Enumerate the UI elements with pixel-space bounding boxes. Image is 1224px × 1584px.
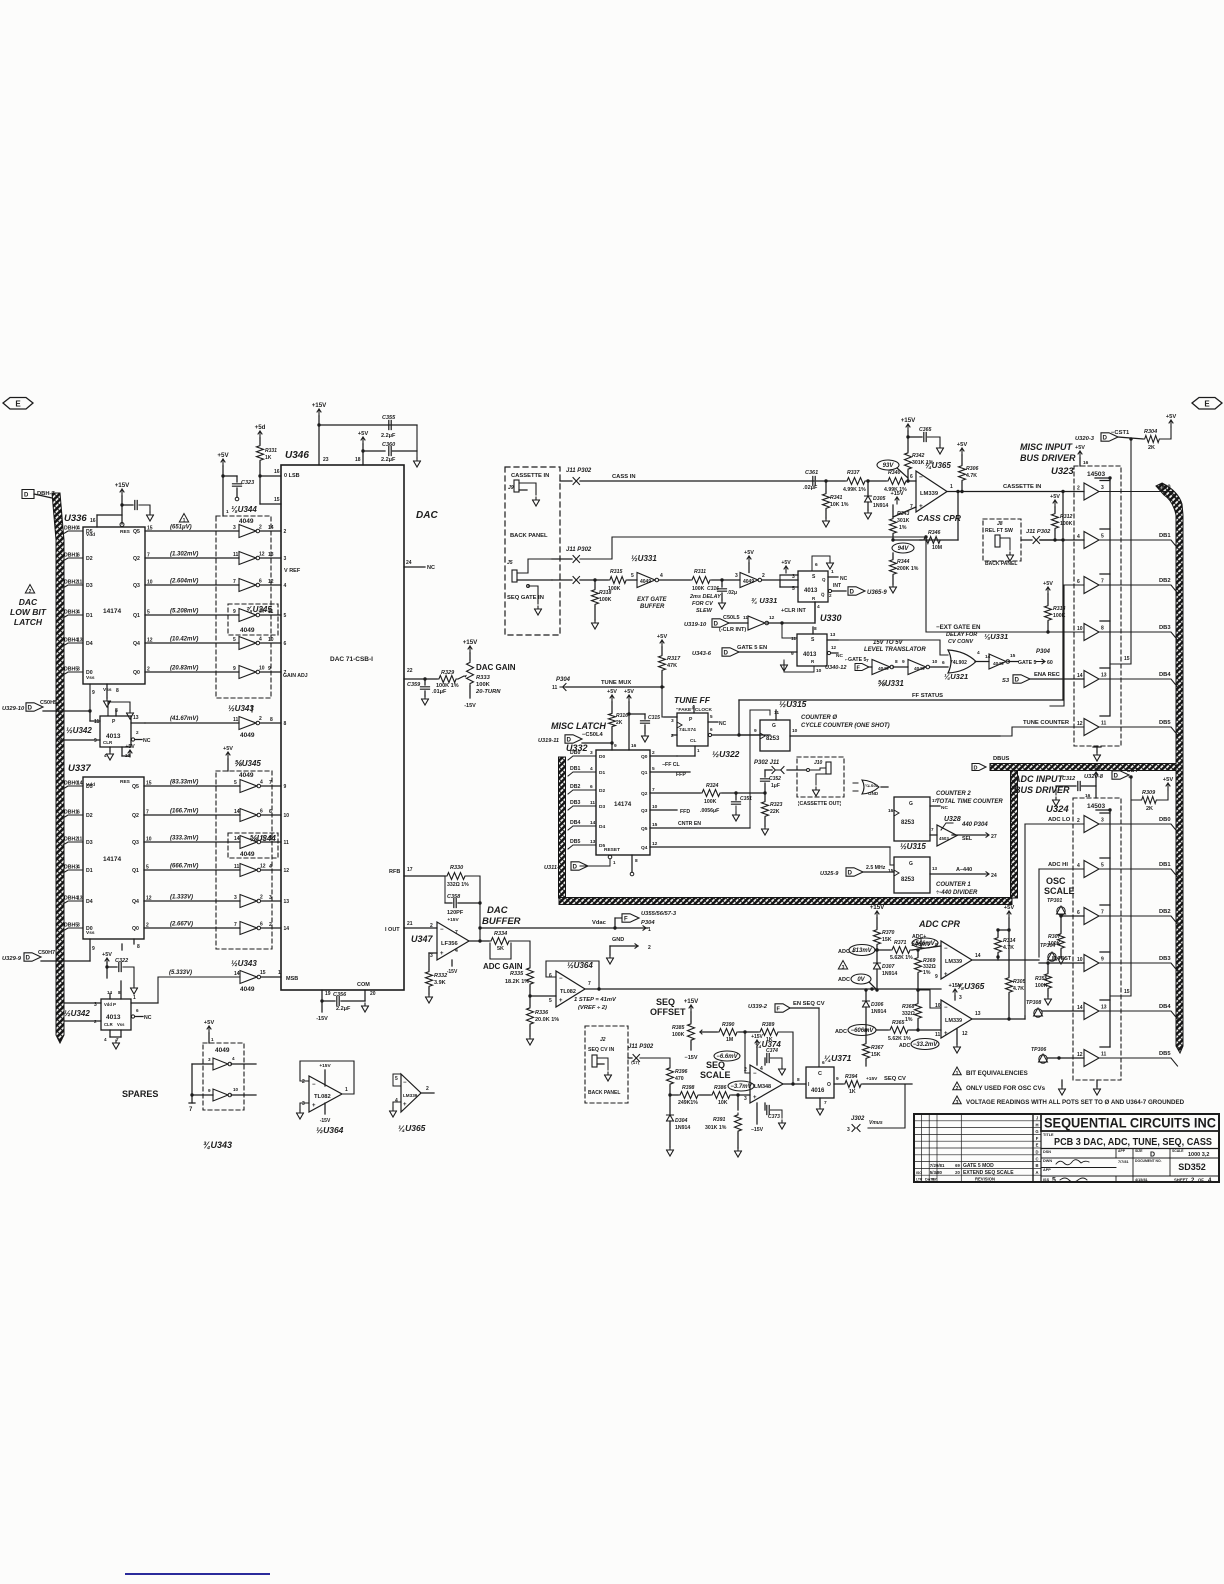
svg-text:DAC: DAC — [19, 597, 38, 607]
svg-text:R316: R316 — [616, 713, 628, 719]
output wire U324 DB0 — [1099, 824, 1178, 832]
svg-text:+5V: +5V — [223, 746, 233, 752]
svg-text:10: 10 — [1077, 626, 1083, 632]
J2 dashed box SEQ CV IN — [585, 1026, 628, 1103]
svg-text:½U343: ½U343 — [231, 959, 257, 968]
svg-text:5: 5 — [233, 637, 236, 643]
svg-text:½U364: ½U364 — [567, 961, 593, 970]
svg-text:C323: C323 — [241, 480, 254, 486]
svg-text:DB1: DB1 — [1159, 862, 1171, 868]
svg-text:DB0: DB0 — [570, 750, 580, 756]
svg-text:D1: D1 — [599, 770, 605, 776]
svg-text:D: D — [848, 870, 853, 877]
svg-text:D1: D1 — [86, 868, 93, 874]
svg-text:14: 14 — [234, 809, 240, 815]
svg-text:½U315: ½U315 — [779, 699, 807, 709]
svg-text:O: O — [827, 1082, 831, 1088]
Vdac output wire — [478, 926, 481, 929]
svg-text:CNTR EN: CNTR EN — [678, 821, 701, 827]
wire U336 Q2 to inverter — [145, 557, 239, 559]
svg-text:BY: BY — [932, 1178, 937, 1182]
svg-text:4049: 4049 — [240, 732, 255, 739]
svg-text:−: − — [559, 976, 563, 982]
svg-text:REVISION: REVISION — [975, 1177, 995, 1182]
CST enable line down to U324 pin15 — [1110, 800, 1131, 996]
svg-text:(83.33mV): (83.33mV) — [170, 780, 198, 786]
size and number row — [1041, 1157, 1219, 1159]
svg-text:ADC: ADC — [838, 977, 850, 983]
wire U336 Q3 to inverter — [145, 584, 239, 586]
op-amp output to R334 — [469, 940, 489, 942]
svg-text:CASS IN: CASS IN — [612, 474, 636, 480]
buffer U323 DB1 (14503) — [1084, 532, 1099, 549]
svg-text:RFB: RFB — [389, 869, 400, 875]
svg-text:470: 470 — [675, 1076, 684, 1082]
svg-text:J10: J10 — [814, 760, 823, 766]
svg-text:47K: 47K — [667, 663, 677, 669]
svg-text:9: 9 — [208, 1088, 211, 1093]
wire buffer to R311 — [659, 579, 691, 581]
logo SEQUENTIAL CIRCUITS INC — [1041, 1114, 1219, 1131]
svg-text:OFFSET: OFFSET — [650, 1007, 686, 1017]
svg-text:U320-3: U320-3 — [1075, 436, 1095, 442]
svg-text:ADC CPR: ADC CPR — [918, 919, 961, 929]
buffer U323 DB0 (14503) — [1084, 483, 1099, 500]
svg-text:C373: C373 — [768, 1114, 780, 1120]
svg-text:11: 11 — [284, 840, 290, 846]
svg-text:D4: D4 — [86, 641, 93, 647]
svg-text:2: 2 — [284, 529, 287, 535]
svg-text:A–440: A–440 — [956, 867, 972, 873]
svg-text:20-TURN: 20-TURN — [475, 689, 501, 695]
svg-text:EXT GATE: EXT GATE — [637, 597, 668, 603]
svg-text:14: 14 — [1077, 1005, 1083, 1011]
U324 ground stubs at bottom — [1061, 1080, 1063, 1086]
svg-text:C: C — [818, 1071, 822, 1077]
svg-text:2: 2 — [259, 525, 262, 531]
wire seq cv to R396 — [640, 1058, 670, 1066]
svg-text:DB3: DB3 — [570, 800, 580, 806]
svg-text:10: 10 — [233, 1087, 239, 1092]
svg-text:GAIN ADJ: GAIN ADJ — [283, 673, 308, 679]
svg-text:1: 1 — [211, 1037, 214, 1042]
enable feed U324 DB2 — [1100, 904, 1110, 906]
svg-text:6: 6 — [1077, 579, 1080, 585]
svg-text:EXTEND SEQ SCALE: EXTEND SEQ SCALE — [963, 1170, 1014, 1176]
svg-text:4049: 4049 — [215, 1047, 230, 1054]
inverter 4049 row 3 (U344/U345) — [239, 579, 256, 592]
U323 input wire DB1 from J11 — [1040, 539, 1084, 541]
buffer U324 DB2 (14503) — [1084, 908, 1099, 925]
4016 out to R394 — [834, 1083, 843, 1085]
svg-text:+5V: +5V — [1163, 777, 1174, 783]
svg-text:¼U371: ¼U371 — [824, 1053, 852, 1063]
output wire U324 DB3 — [1099, 963, 1178, 971]
svg-text:4013: 4013 — [106, 733, 121, 740]
U364b feedback loop — [300, 1061, 354, 1094]
inverter 4049 row 1 (U344/U345) — [239, 525, 256, 538]
svg-text:+15V: +15V — [901, 417, 916, 424]
diode D305 1N914 — [867, 481, 869, 496]
gate 74LS02 spare tie — [862, 780, 879, 794]
svg-text:⅛U331: ⅛U331 — [984, 632, 1008, 641]
svg-text:+15V: +15V — [319, 1063, 331, 1069]
U330b Q pin13 to 74L902 — [827, 639, 838, 641]
svg-text:GND: GND — [868, 791, 879, 796]
buffer U323 DB5 (14503) — [1084, 719, 1099, 736]
svg-text:DB2: DB2 — [570, 784, 580, 790]
BACK PANEL dashed box — [505, 467, 560, 635]
svg-text:19: 19 — [325, 991, 331, 997]
svg-text:⅞U345: ⅞U345 — [246, 605, 272, 614]
svg-text:1: 1 — [950, 484, 953, 490]
U332 Q3 FFD wire — [650, 809, 677, 811]
flip-flop U322 74LS74 — [677, 713, 708, 746]
svg-text:MISC LATCH: MISC LATCH — [551, 721, 606, 731]
svg-text:R334: R334 — [494, 931, 507, 937]
svg-text:D3: D3 — [86, 583, 93, 589]
U364b ground — [300, 1103, 309, 1110]
U323 dashed package box — [1074, 466, 1121, 746]
svg-text:½U342: ½U342 — [64, 1009, 90, 1018]
title PCB 3 DAC ADC TUNE SEQ CASS — [1041, 1130, 1219, 1132]
svg-text:4049: 4049 — [240, 627, 255, 634]
svg-text:NC: NC — [144, 1015, 152, 1021]
svg-text:8: 8 — [635, 858, 638, 864]
resistor R342 301K 1% and C365 — [906, 424, 910, 431]
svg-text:4013: 4013 — [106, 1014, 121, 1021]
svg-text:MISC INPUT: MISC INPUT — [1020, 442, 1074, 452]
svg-text:3: 3 — [590, 750, 593, 756]
svg-text:Q2: Q2 — [133, 556, 140, 562]
resistor R329 100K 1% — [437, 676, 458, 683]
svg-text:10: 10 — [259, 666, 265, 672]
svg-text:+5V: +5V — [744, 550, 754, 556]
svg-text:7: 7 — [866, 658, 869, 664]
svg-text:CASSETTE IN: CASSETTE IN — [511, 473, 549, 479]
wire U336 Q4 to inverter — [145, 642, 239, 644]
svg-text:½U343: ½U343 — [228, 704, 254, 713]
trimpot R333 DAC GAIN 100K 20-TURN — [468, 646, 472, 653]
svg-text:R333: R333 — [476, 675, 491, 681]
svg-text:D305: D305 — [873, 496, 886, 502]
EN SEQ CV wire down to 4016 — [818, 1008, 820, 1066]
capacitor C359 .01uF — [423, 677, 426, 680]
svg-text:9: 9 — [233, 666, 236, 672]
U324 +5V pin16 — [1094, 772, 1098, 779]
wire to DAC MSB pin 1 — [262, 976, 282, 978]
svg-text:(666.7mV): (666.7mV) — [170, 864, 198, 870]
resistor R371 5.62K 1% — [877, 949, 890, 951]
svg-text:12: 12 — [769, 615, 775, 621]
svg-text:RESET: RESET — [604, 847, 620, 853]
wire U337 Q5 to inverter — [144, 785, 240, 787]
svg-text:94V: 94V — [898, 546, 910, 552]
svg-text:14503: 14503 — [1087, 471, 1105, 478]
svg-text:13: 13 — [77, 896, 83, 902]
svg-text:15: 15 — [652, 822, 658, 828]
svg-text:546mV: 546mV — [915, 941, 935, 947]
svg-text:DAC: DAC — [487, 905, 508, 916]
svg-text:VOLTAGE READINGS WITH ALL POTS: VOLTAGE READINGS WITH ALL POTS SET TO Ø … — [966, 1099, 1185, 1106]
svg-text:D306: D306 — [871, 1002, 884, 1008]
svg-text:6: 6 — [260, 809, 263, 815]
wire R390 node down to LM348 minus — [745, 1032, 750, 1073]
counter0 out pin10 wire — [790, 735, 1000, 737]
svg-text:R355: R355 — [1035, 976, 1048, 982]
svg-text:6: 6 — [284, 641, 287, 647]
svg-text:93V: 93V — [883, 463, 895, 469]
svg-text:¼U365: ¼U365 — [398, 1123, 426, 1133]
svg-text:15K: 15K — [871, 1052, 881, 1058]
switch U371 4016 — [806, 1067, 834, 1098]
svg-text:12: 12 — [260, 864, 266, 870]
svg-text:R371: R371 — [894, 940, 907, 946]
svg-text:SEQUENTIAL CIRCUITS INC: SEQUENTIAL CIRCUITS INC — [1044, 1116, 1216, 1131]
svg-text:14: 14 — [234, 836, 240, 842]
wire to TL082 + input — [530, 995, 556, 997]
svg-text:0V: 0V — [857, 977, 865, 983]
svg-text:D: D — [1035, 1150, 1038, 1155]
svg-text:3: 3 — [77, 923, 80, 929]
svg-text:5: 5 — [395, 1076, 398, 1082]
U323 ground at bottom — [1096, 746, 1098, 752]
svg-text:8: 8 — [895, 659, 898, 665]
svg-text:DB1: DB1 — [1159, 533, 1171, 539]
svg-text:LF356: LF356 — [441, 941, 459, 947]
resistor R389 1K feedback — [745, 1031, 758, 1033]
svg-text:4: 4 — [660, 573, 663, 579]
svg-text:C361: C361 — [805, 470, 818, 476]
svg-text:U328: U328 — [944, 816, 961, 823]
svg-text:9: 9 — [754, 728, 757, 734]
svg-text:2: 2 — [1077, 486, 1080, 492]
U322 Q pin5 NC — [708, 721, 718, 723]
inverter 4049 row 5 (U344/U345) — [239, 637, 256, 650]
wire TUNE MUX down to TUNE FF clock — [662, 687, 677, 717]
svg-text:10M: 10M — [932, 545, 942, 551]
svg-text:-15V: -15V — [447, 969, 458, 975]
svg-text:D5: D5 — [86, 784, 93, 790]
svg-text:+: + — [944, 1031, 948, 1037]
capacitor C358 120PF — [444, 876, 446, 903]
buffer U324 DB4 (14503) — [1084, 1003, 1099, 1020]
DAC LOW BIT LATCH label — [25, 585, 34, 594]
svg-text:11: 11 — [774, 710, 779, 716]
svg-text:P: P — [113, 1002, 116, 1007]
dashed group box U345 (high bits) — [216, 771, 272, 949]
svg-text:4.7K: 4.7K — [966, 473, 977, 479]
svg-text:U319-11: U319-11 — [538, 738, 559, 744]
svg-text:20: 20 — [370, 991, 376, 997]
wire R334 to R335 — [511, 941, 530, 966]
svg-text:2.2μF: 2.2μF — [381, 457, 396, 463]
svg-text:DB3: DB3 — [1159, 956, 1171, 962]
svg-text:SCALE: SCALE — [1044, 886, 1075, 896]
wire inverter to DAC — [261, 584, 282, 586]
svg-text:Q4: Q4 — [133, 641, 140, 647]
svg-text:6: 6 — [590, 784, 593, 790]
svg-text:5: 5 — [284, 613, 287, 619]
R306 4.7K pullup — [960, 448, 964, 455]
U323 enable bus — [1109, 478, 1111, 715]
wire inverter to DAC — [262, 927, 282, 929]
capacitor C361 .02uF — [813, 477, 815, 486]
svg-text:6: 6 — [77, 553, 80, 559]
svg-text:NC: NC — [941, 805, 948, 811]
svg-text:R337: R337 — [847, 470, 861, 476]
svg-text:D4: D4 — [86, 899, 93, 905]
svg-text:6: 6 — [815, 562, 818, 568]
svg-text:14: 14 — [975, 953, 981, 959]
svg-text:NC: NC — [840, 576, 848, 582]
svg-text:+5V: +5V — [1075, 445, 1085, 451]
svg-text:ONLY USED FOR OSC CVs: ONLY USED FOR OSC CVs — [966, 1085, 1046, 1092]
wire to U330 flip-flop — [762, 579, 799, 581]
resistor R394 1K — [843, 1081, 863, 1088]
svg-text:14503: 14503 — [1087, 803, 1105, 810]
flip-flop U342b 4013 — [101, 999, 131, 1030]
svg-text:J302: J302 — [851, 1116, 865, 1122]
svg-text:15: 15 — [1124, 989, 1130, 995]
svg-text:.02μF: .02μF — [803, 485, 818, 491]
svg-text:5K: 5K — [497, 946, 504, 952]
svg-text:R305: R305 — [1013, 979, 1026, 985]
op-amp U374 LM348 SEQ SCALE — [750, 1065, 783, 1103]
U365b output to ADC HI — [972, 959, 1039, 961]
svg-text:−15V: −15V — [685, 1055, 698, 1061]
svg-text:+15V: +15V — [891, 491, 904, 497]
svg-text:(-CLR INT): (-CLR INT) — [719, 627, 746, 633]
svg-text:100K: 100K — [672, 1032, 685, 1038]
resistor R313 100K pullup — [1046, 587, 1050, 594]
svg-text:4: 4 — [77, 526, 80, 532]
svg-text:3: 3 — [284, 556, 287, 562]
svg-text:J5: J5 — [507, 560, 513, 566]
U332 input DB0 — [568, 756, 596, 760]
svg-text:100K: 100K — [1060, 521, 1073, 527]
svg-text:+5d: +5d — [255, 424, 266, 431]
svg-text:C355: C355 — [382, 415, 396, 421]
resistor R368 332 1% — [917, 990, 919, 1002]
svg-text:U323: U323 — [1051, 466, 1074, 477]
svg-text:(VREF ÷ 2): (VREF ÷ 2) — [578, 1005, 607, 1011]
wire to C355/C360 — [319, 424, 417, 426]
counter U315b 8253 counter 2 — [894, 797, 930, 841]
svg-text:Q4: Q4 — [641, 845, 648, 851]
enable feed DB1 — [1100, 528, 1110, 530]
svg-text:4/15/81: 4/15/81 — [1135, 1178, 1148, 1182]
svg-text:U336: U336 — [64, 513, 87, 524]
svg-text:J8: J8 — [997, 521, 1003, 527]
svg-text:2: 2 — [762, 573, 765, 579]
svg-text:DOCUMENT NO.: DOCUMENT NO. — [1135, 1159, 1162, 1163]
svg-text:R330: R330 — [450, 865, 463, 871]
svg-text:C: C — [1035, 1156, 1038, 1161]
svg-text:SEQ: SEQ — [706, 1060, 725, 1070]
svg-text:2: 2 — [260, 895, 263, 901]
resistor R335 18.2K 1% — [527, 966, 534, 986]
svg-text:SCALE: SCALE — [700, 1070, 731, 1080]
wire inverter to DAC — [262, 814, 282, 816]
svg-text:MSB: MSB — [286, 976, 298, 982]
svg-text:M TEST: M TEST — [1052, 956, 1072, 962]
svg-text:10: 10 — [792, 728, 798, 734]
diode D306 1N914 — [865, 990, 867, 1001]
capacitor C315 — [644, 714, 646, 719]
svg-text:FF STATUS: FF STATUS — [912, 693, 943, 699]
svg-text:¾ U331: ¾ U331 — [751, 596, 777, 605]
resistor R330 332ohm 1% — [445, 873, 467, 880]
svg-text:E: E — [1036, 1143, 1039, 1148]
svg-text:2: 2 — [426, 1086, 429, 1092]
svg-text:1M: 1M — [726, 1037, 733, 1043]
svg-text:−33.2mV: −33.2mV — [913, 1042, 939, 1048]
output wire U324 DB2 — [1099, 916, 1178, 924]
svg-text:Vdac: Vdac — [592, 920, 607, 926]
svg-text:5: 5 — [652, 766, 655, 772]
svg-text:OF: OF — [1198, 1178, 1204, 1183]
wire U337 Q4 to inverter — [144, 900, 240, 902]
svg-text:6: 6 — [260, 922, 263, 928]
buffer U324 DB1 (14503) — [1084, 861, 1099, 878]
svg-text:8: 8 — [270, 717, 273, 723]
svg-text:(1.302mV): (1.302mV) — [170, 552, 198, 558]
svg-text:+5V: +5V — [1043, 581, 1053, 587]
svg-text:1: 1 — [613, 860, 616, 865]
capacitor C322 — [106, 962, 108, 978]
svg-text:R386: R386 — [714, 1085, 727, 1091]
wire U337 Q0 to inverter — [144, 927, 240, 929]
svg-text:(1.333V): (1.333V) — [170, 895, 193, 901]
inverter 4049 row 3 (U345/U344 high) — [240, 836, 257, 849]
svg-text:8: 8 — [284, 721, 287, 727]
svg-text:LOW BIT: LOW BIT — [10, 607, 47, 617]
svg-text:SEL: SEL — [962, 836, 973, 842]
U365c +15V pin 3 — [953, 989, 957, 996]
wire U336 Q1 to inverter — [145, 614, 239, 616]
svg-text:2: 2 — [652, 750, 655, 756]
svg-text:G: G — [909, 801, 913, 807]
svg-text:SEQ: SEQ — [656, 997, 675, 1007]
svg-text:DB5: DB5 — [1159, 1051, 1171, 1057]
U324 input DB4 wire — [1042, 1010, 1084, 1012]
svg-text:GND: GND — [612, 937, 624, 943]
svg-text:11: 11 — [1101, 721, 1107, 727]
svg-text:4049: 4049 — [993, 661, 1004, 667]
svg-text:+5V: +5V — [624, 689, 634, 695]
buffer U323 DB2 (14503) — [1084, 577, 1099, 594]
svg-text:16: 16 — [631, 743, 637, 749]
svg-text:CYCLE COUNTER (ONE SHOT): CYCLE COUNTER (ONE SHOT) — [801, 723, 890, 729]
svg-text:2: 2 — [1077, 818, 1080, 824]
gate U321 74L902 — [948, 650, 976, 673]
svg-text:¾LS02: ¾LS02 — [865, 783, 879, 788]
svg-text:SIZE: SIZE — [1135, 1149, 1143, 1153]
svg-text:RES: RES — [120, 529, 131, 535]
spare inverter 2 — [213, 1089, 228, 1101]
svg-text:Vmus: Vmus — [869, 1120, 883, 1126]
svg-text:TITLE: TITLE — [1043, 1133, 1054, 1137]
resistor R398 249K 1% — [670, 1094, 678, 1096]
svg-text:15: 15 — [260, 970, 266, 976]
svg-text:U325-9: U325-9 — [820, 871, 839, 877]
U332 input DB4 — [568, 826, 596, 830]
CASSETTE IN output wire to U323 — [958, 491, 1084, 493]
svg-text:BIT EQUIVALENCIES: BIT EQUIVALENCIES — [966, 1070, 1028, 1077]
svg-text:C316: C316 — [707, 586, 719, 592]
svg-text:SHEET: SHEET — [1174, 1178, 1188, 1183]
